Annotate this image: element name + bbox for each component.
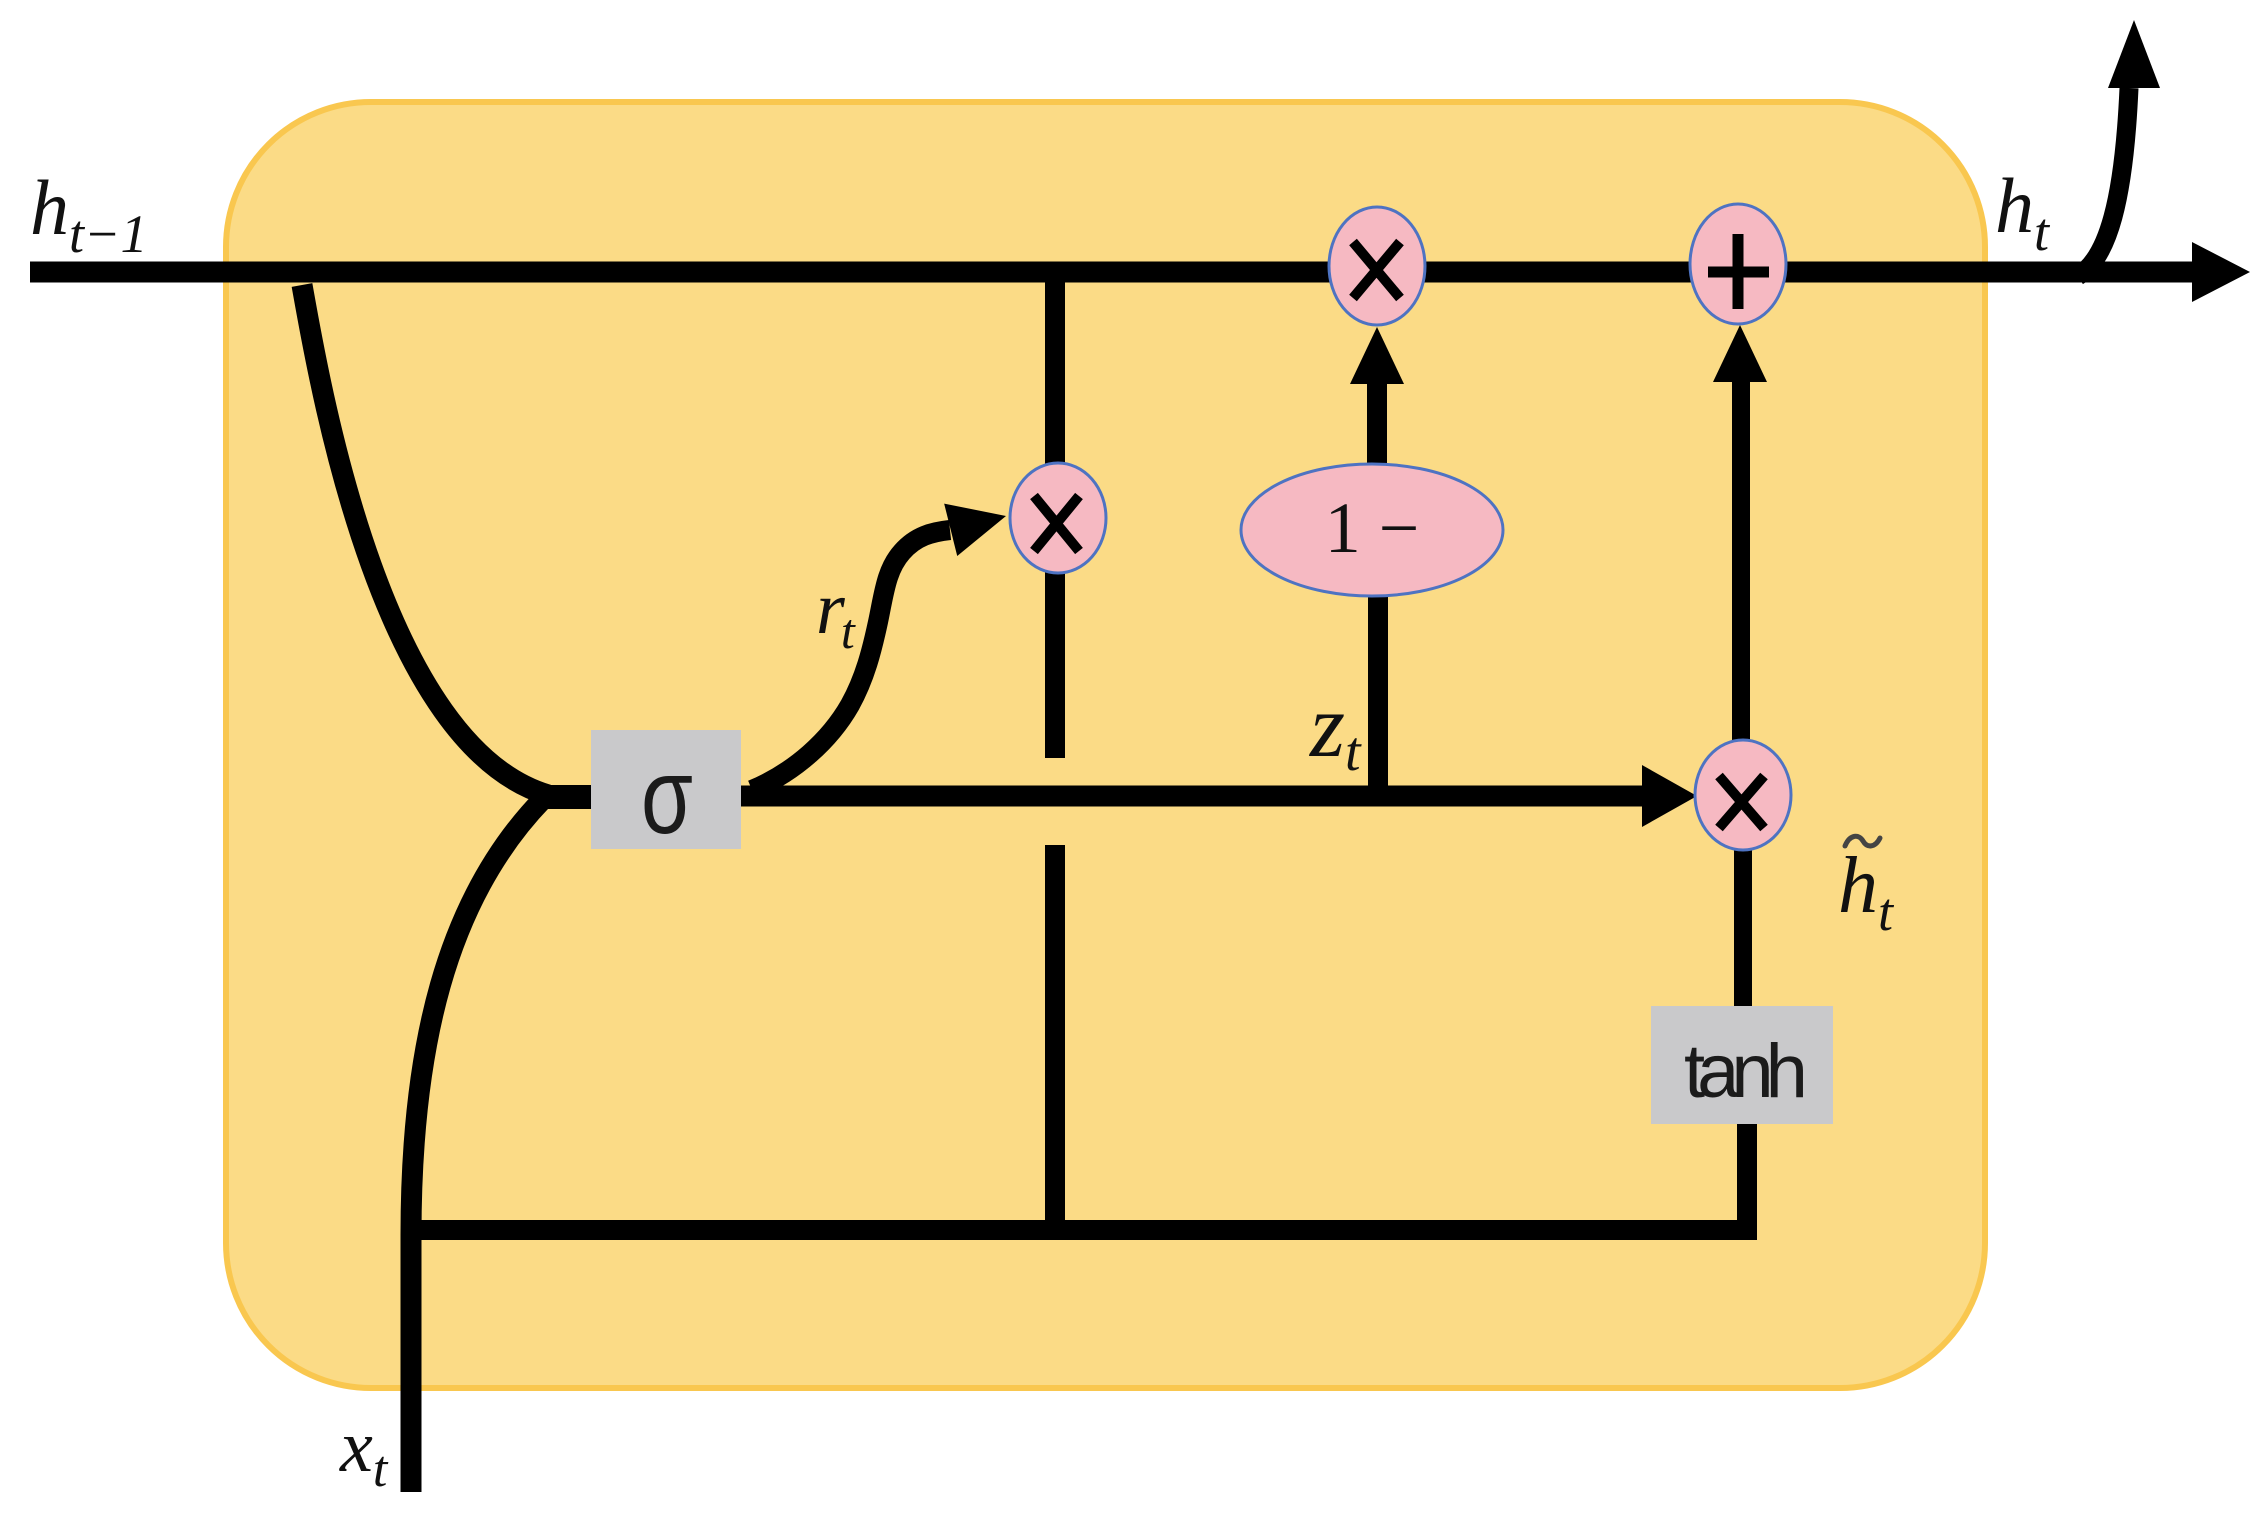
wire: h_{t-1} branch curve down to sigma — [302, 285, 548, 795]
wire arrowhead: into right multiply node — [1642, 765, 1697, 827]
op: sigma box — [591, 730, 741, 849]
node: 1-minus ellipse — [1241, 464, 1503, 596]
wire arrowhead: into top multiply node — [1350, 327, 1404, 384]
svg-text:σ: σ — [641, 735, 693, 856]
wire: middle vertical lower segment to bottom bus — [1045, 845, 1065, 1232]
svg-text:ht−1: ht−1 — [30, 164, 147, 264]
node: plus (on h line) — [1690, 204, 1786, 324]
wire: sigma output horizontal line — [741, 786, 1645, 807]
GRU cell body (rounded yellow rectangle) — [226, 102, 1985, 1388]
wire: output branch curving up at top right — [2078, 88, 2129, 276]
wire: below right multiply node to tanh — [1734, 850, 1752, 1006]
svg-text:xt: xt — [339, 1406, 389, 1498]
svg-text:1 −: 1 − — [1325, 488, 1420, 568]
wire: vertical up into plus node — [1732, 382, 1750, 740]
node: multiply (middle, reset gate) — [1010, 463, 1106, 573]
wire: stem from 1- ellipse up — [1367, 384, 1387, 464]
wire arrowhead: h_t output right — [2192, 242, 2250, 302]
wire: middle vertical upper segment — [1045, 262, 1065, 464]
label tilde accent — [1845, 836, 1880, 846]
wire arrowhead: into plus node — [1713, 325, 1767, 382]
wire: z_t branch up from sigma line to 1- ellipse — [1368, 596, 1388, 801]
wire: r_t S-curve to middle multiply node — [752, 530, 950, 790]
wire: main h state line — [30, 262, 2192, 283]
wire: x_t input line curving to sigma — [411, 799, 543, 1492]
node: multiply (top, on h line) — [1329, 207, 1425, 325]
wire: fork stem into sigma — [545, 785, 591, 809]
svg-text:tanh: tanh — [1684, 1029, 1804, 1114]
wire arrowhead: up branch — [2108, 20, 2160, 88]
wire arrowhead: r_t into multiply node — [944, 490, 1012, 556]
wire: bottom bus from x_t line to tanh — [402, 1124, 1747, 1230]
wire: middle vertical below multiply node — [1045, 572, 1065, 758]
op: tanh box — [1651, 1006, 1833, 1124]
svg-text:ht: ht — [1995, 162, 2051, 262]
node: multiply (right, candidate gate) — [1695, 740, 1791, 850]
